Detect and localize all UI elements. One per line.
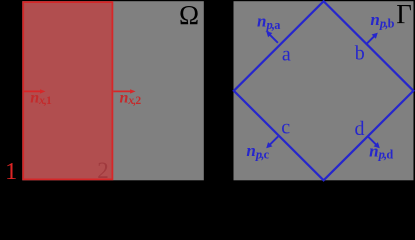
svg-text:Γ: Γ bbox=[396, 0, 412, 29]
svg-text:d: d bbox=[355, 118, 365, 140]
svg-text:a: a bbox=[282, 43, 291, 65]
svg-text:b: b bbox=[355, 43, 365, 65]
blue diamond (particle boundary) bbox=[234, 1, 414, 180]
svg-text:Ω: Ω bbox=[179, 0, 199, 30]
left domain square (Omega) bbox=[22, 1, 204, 180]
arrow n_x,1 bbox=[23, 89, 45, 93]
svg-text:1: 1 bbox=[5, 158, 17, 182]
arrow n_p,b bbox=[366, 33, 378, 45]
right domain square (Gamma) bbox=[234, 1, 414, 180]
red subdomain rectangle 1 bbox=[23, 2, 112, 179]
svg-text:c: c bbox=[281, 117, 290, 139]
arrow n_p,a bbox=[266, 31, 278, 43]
arrow n_p,c bbox=[266, 136, 278, 148]
svg-text:2: 2 bbox=[97, 158, 109, 182]
arrow n_p,d bbox=[368, 136, 380, 148]
arrow n_x,2 bbox=[113, 89, 135, 93]
